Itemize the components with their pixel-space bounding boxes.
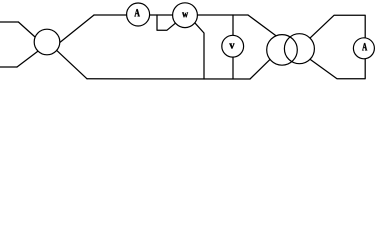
voltmeter V label bbox=[229, 44, 234, 49]
wire voltmeter top lead bbox=[232, 15, 234, 35]
wire wattmeter pressure-coil left tap bbox=[157, 15, 175, 30]
voltmeter V circle bbox=[222, 35, 244, 57]
variac (supply regulator) circle bbox=[34, 29, 60, 55]
wire top bus bbox=[94, 14, 248, 16]
wire diagonal supply to variac top-left bbox=[18, 22, 35, 37]
wattmeter W label bbox=[182, 12, 188, 17]
wire top bus diagonal to transformer primary bbox=[248, 15, 276, 36]
wire bottom bus bbox=[87, 78, 250, 80]
wire diagonal variac to top bus bbox=[60, 15, 94, 43]
ammeter A2 label bbox=[362, 43, 367, 50]
ammeter A2 circle bbox=[353, 38, 374, 59]
wire wattmeter pressure-coil right drop bbox=[195, 23, 204, 79]
wire bottom bus diagonal to transformer primary bbox=[250, 59, 270, 79]
wire bottom-left supply stub bbox=[0, 66, 17, 68]
ammeter A1 label bbox=[134, 9, 139, 16]
transformer primary winding circle bbox=[267, 35, 298, 66]
wire diagonal variac to bottom bus bbox=[57, 51, 87, 79]
ammeter A1 circle bbox=[127, 3, 150, 26]
wire voltmeter bottom lead bbox=[232, 57, 234, 79]
wire top-left supply stub bbox=[0, 21, 18, 23]
wattmeter W circle bbox=[173, 3, 198, 28]
transformer secondary winding circle bbox=[284, 34, 314, 64]
wire diagonal supply to variac bottom-left bbox=[17, 51, 38, 67]
wire ammeter A2 bottom return to transformer secondary bbox=[310, 59, 365, 79]
wire transformer secondary top to ammeter A2 bbox=[310, 15, 365, 38]
